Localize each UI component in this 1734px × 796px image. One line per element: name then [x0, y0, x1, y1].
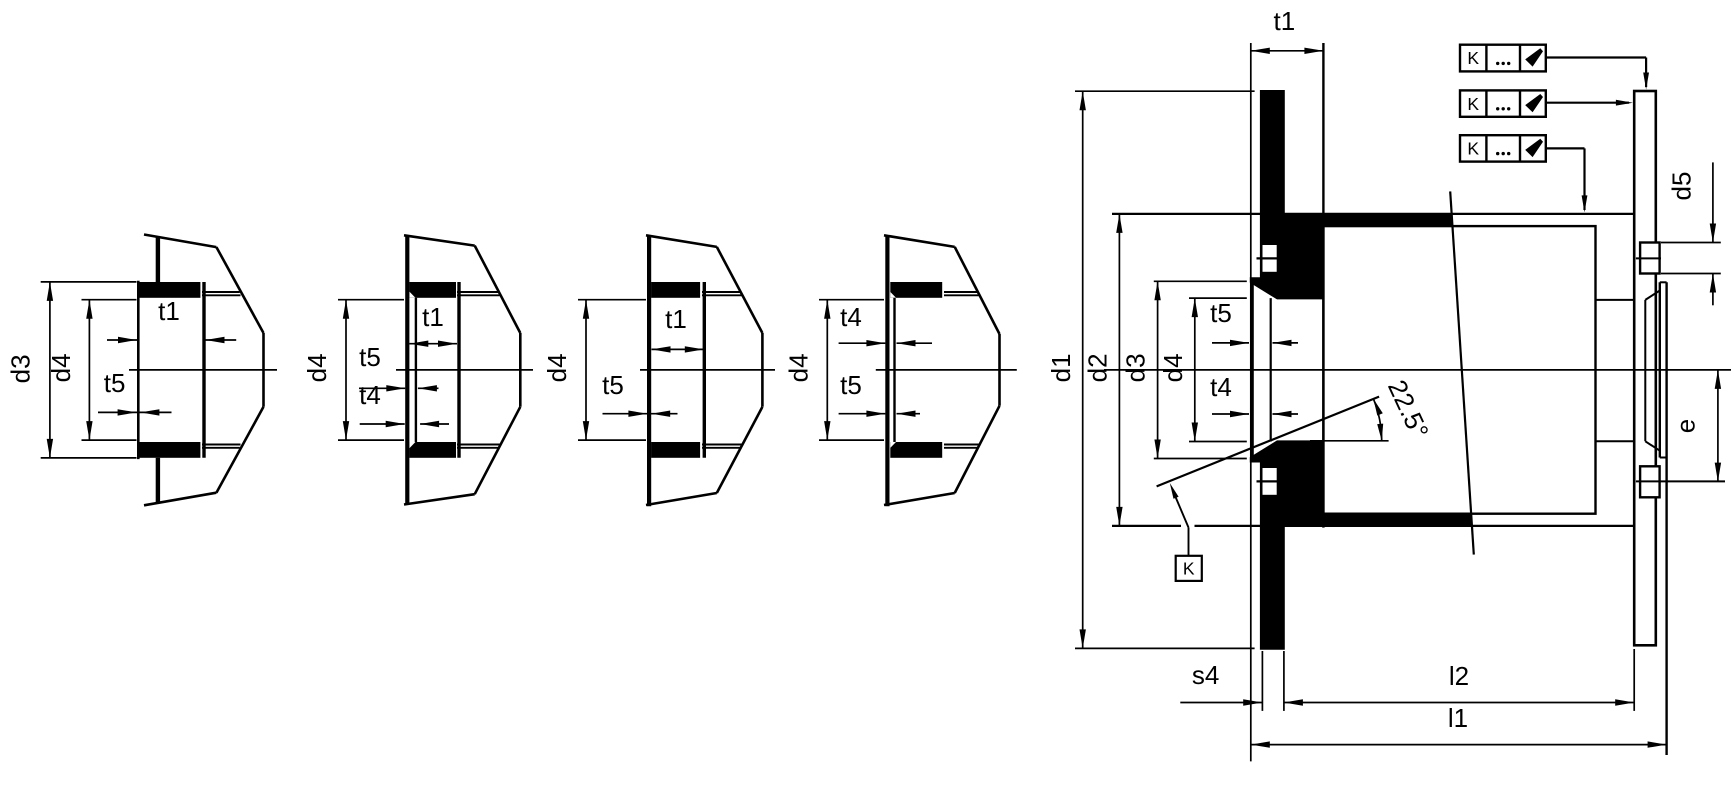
svg-text:d4: d4 [46, 353, 76, 382]
svg-text:d1: d1 [1046, 353, 1076, 382]
svg-text:t5: t5 [840, 370, 862, 400]
svg-text:t5: t5 [1210, 298, 1232, 328]
svg-text:t1: t1 [1274, 6, 1296, 36]
svg-text:s4: s4 [1192, 660, 1219, 690]
svg-text:22.5°: 22.5° [1382, 375, 1435, 443]
svg-text:d3: d3 [6, 354, 36, 383]
svg-text:t1: t1 [665, 304, 687, 334]
svg-text:d5: d5 [1667, 172, 1697, 201]
svg-text:l1: l1 [1448, 703, 1468, 733]
svg-text:t1: t1 [158, 296, 180, 326]
svg-text:K: K [1467, 94, 1479, 114]
svg-text:d4: d4 [783, 353, 813, 382]
svg-text:t4: t4 [840, 302, 862, 332]
svg-text:K: K [1183, 558, 1195, 578]
svg-text:d4: d4 [542, 353, 572, 382]
svg-text:t4: t4 [359, 380, 381, 410]
svg-text:l2: l2 [1449, 661, 1469, 691]
svg-text:d4: d4 [1158, 353, 1188, 382]
svg-text:t4: t4 [1210, 372, 1232, 402]
svg-text:e: e [1671, 419, 1701, 433]
svg-text:t1: t1 [422, 302, 444, 332]
svg-text:d3: d3 [1121, 353, 1151, 382]
svg-text:d2: d2 [1083, 353, 1113, 382]
svg-text:t5: t5 [359, 342, 381, 372]
svg-text:t5: t5 [104, 368, 126, 398]
svg-text:K: K [1467, 139, 1479, 159]
svg-text:t5: t5 [602, 370, 624, 400]
svg-text:K: K [1467, 48, 1479, 68]
svg-text:d4: d4 [302, 353, 332, 382]
